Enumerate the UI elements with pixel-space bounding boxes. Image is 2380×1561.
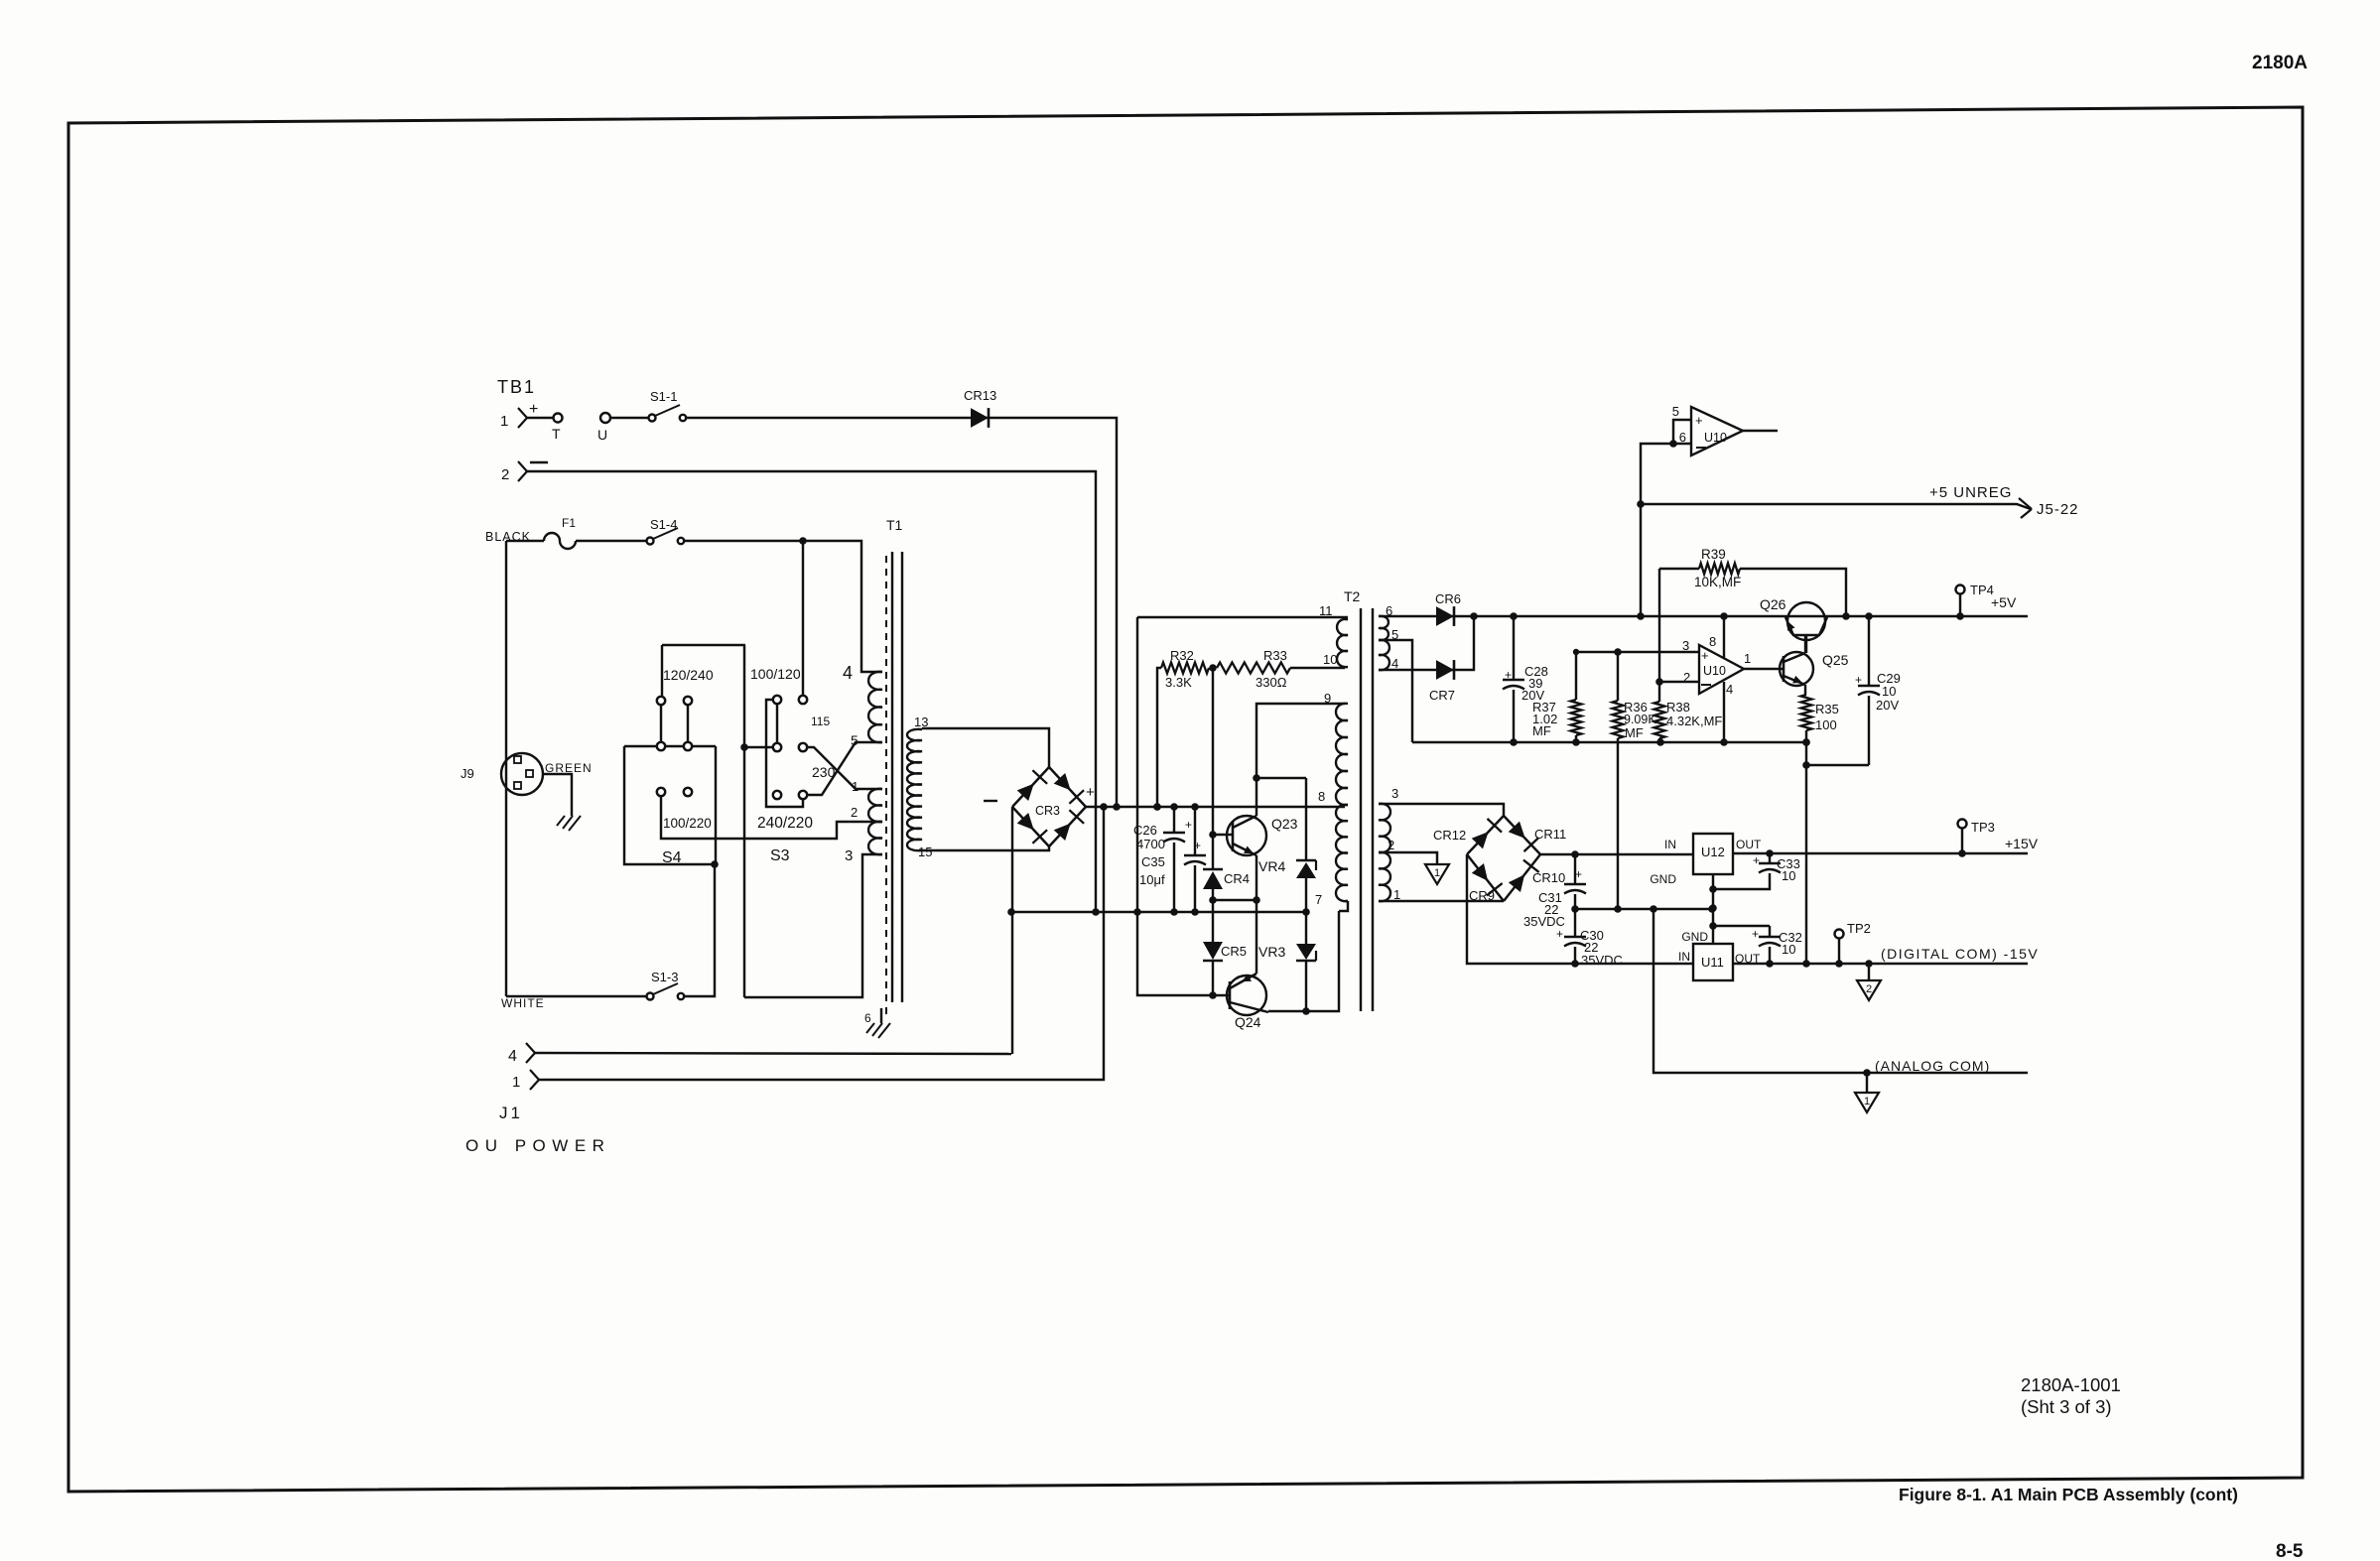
svg-text:MF: MF <box>1625 725 1644 740</box>
svg-text:8-5: 8-5 <box>2276 1541 2304 1561</box>
svg-text:120/240: 120/240 <box>663 667 714 683</box>
svg-text:GND: GND <box>1681 930 1708 944</box>
svg-text:Figure 8-1. A1 Main PCB Assemb: Figure 8-1. A1 Main PCB Assembly (cont) <box>1899 1485 2238 1504</box>
svg-text:1: 1 <box>1393 887 1400 902</box>
svg-text:2: 2 <box>1683 670 1690 685</box>
wire S1-3 to S4 box <box>684 864 715 996</box>
svg-text:1: 1 <box>1744 651 1751 666</box>
svg-text:4: 4 <box>1726 682 1733 697</box>
svg-text:S4: S4 <box>662 849 682 866</box>
svg-text:(ANALOG COM): (ANALOG COM) <box>1875 1058 1990 1074</box>
svg-text:Q23: Q23 <box>1271 816 1298 832</box>
wire R35 node down to -15V line <box>1805 765 1807 964</box>
ground symbol chassis (green) <box>569 816 581 831</box>
svg-text:OU POWER: OU POWER <box>465 1136 610 1155</box>
svg-text:J1: J1 <box>499 1104 523 1122</box>
svg-text:GND: GND <box>1650 872 1676 886</box>
svg-text:IN: IN <box>1678 950 1690 964</box>
transformer T2 core <box>1360 608 1362 1011</box>
wire +15V output line <box>1733 852 2028 854</box>
svg-text:CR3: CR3 <box>1035 804 1060 818</box>
svg-text:+: + <box>1701 648 1709 663</box>
switch S3 jumper left pair <box>776 704 778 743</box>
ground triangle 1 analog <box>1866 1073 1868 1093</box>
wire S1-1 to CR13 <box>686 417 971 419</box>
svg-text:R38: R38 <box>1666 700 1690 715</box>
svg-text:2: 2 <box>1866 983 1872 995</box>
svg-text:Q25: Q25 <box>1822 652 1849 668</box>
svg-text:U12: U12 <box>1701 845 1725 859</box>
regulator U12 <box>1693 834 1733 874</box>
wire -15V output line <box>1733 963 2028 965</box>
svg-text:WHITE: WHITE <box>501 996 545 1010</box>
wire S4 inner contact to T1 pin 2 <box>661 796 882 839</box>
svg-text:3: 3 <box>1391 786 1398 801</box>
wire BLACK to fuse <box>506 540 544 542</box>
wire +5 unreg line <box>1452 615 2028 617</box>
svg-text:5: 5 <box>1672 404 1679 419</box>
wire S1-4 junction down to S3 <box>802 541 804 696</box>
svg-text:Q26: Q26 <box>1760 596 1786 612</box>
svg-text:C35: C35 <box>1141 854 1165 869</box>
plus rail <box>1086 806 1345 808</box>
svg-text:10: 10 <box>1782 868 1795 883</box>
wire S3 to left-middle contact <box>744 746 773 748</box>
transformer T1 core <box>885 556 887 1014</box>
svg-text:S3: S3 <box>770 847 790 864</box>
wire C29 bottom jog <box>1806 764 1869 766</box>
op-amp U10 (upper spare) <box>1691 407 1743 455</box>
minus rail <box>1011 911 1306 913</box>
svg-text:100/220: 100/220 <box>663 816 712 831</box>
wire Q25 collector to Q26 base <box>1804 635 1806 653</box>
svg-text:CR11: CR11 <box>1534 827 1566 842</box>
svg-text:6: 6 <box>864 1011 871 1025</box>
svg-text:15: 15 <box>918 845 932 859</box>
wire U10 upper pin6 to unreg <box>1641 444 1691 616</box>
terminal T circle <box>527 417 553 419</box>
wire T1 pin11 riser to Q24 base <box>1137 617 1230 995</box>
wire T2 pin 7 step <box>1339 901 1348 911</box>
svg-text:8: 8 <box>1318 789 1325 804</box>
svg-text:1: 1 <box>1864 1096 1870 1107</box>
svg-text:4: 4 <box>508 1048 517 1065</box>
wire U10 pin4 to rail <box>1723 682 1725 742</box>
svg-text:U10: U10 <box>1703 664 1726 678</box>
svg-text:CR10: CR10 <box>1532 870 1565 885</box>
svg-text:330Ω: 330Ω <box>1256 675 1287 690</box>
svg-text:CR9: CR9 <box>1469 888 1495 903</box>
wire bridge minus to U11 input <box>1467 854 1693 964</box>
svg-text:3.3K: 3.3K <box>1165 675 1192 690</box>
wire T2-3 to bridge <box>1379 804 1504 816</box>
wire CR4-CR5 node link <box>1213 899 1256 901</box>
svg-text:2180A: 2180A <box>2252 53 2308 73</box>
svg-text:T2: T2 <box>1344 588 1361 604</box>
svg-text:R33: R33 <box>1263 648 1287 663</box>
svg-text:Q24: Q24 <box>1235 1014 1261 1030</box>
switch S4 body box <box>624 746 716 864</box>
wire U12 GND chain <box>1712 874 1714 944</box>
svg-text:3: 3 <box>1682 638 1689 653</box>
svg-text:R39: R39 <box>1701 547 1726 562</box>
svg-text:+15V: +15V <box>2005 836 2039 851</box>
svg-text:9.09K: 9.09K <box>1624 713 1656 726</box>
wire S3 loop to T1 pin 3 <box>744 854 882 997</box>
wire U10 pin8 to unreg <box>1723 616 1725 658</box>
svg-text:R35: R35 <box>1815 702 1839 716</box>
ground triangle 2 <box>1868 964 1870 980</box>
common rail under regulators <box>1412 741 1806 743</box>
svg-text:(DIGITAL COM) -15V: (DIGITAL COM) -15V <box>1881 946 2039 962</box>
wire TB1-2 to minus rail riser <box>527 471 1096 912</box>
wire R32-R33 junction vertical <box>1212 668 1214 868</box>
svg-text:10μf: 10μf <box>1139 872 1165 887</box>
svg-text:3: 3 <box>845 847 853 864</box>
svg-text:T1: T1 <box>886 517 903 533</box>
svg-text:CR7: CR7 <box>1429 688 1455 703</box>
wire Q23 emitter chain <box>1256 855 1257 974</box>
svg-text:IN: IN <box>1664 838 1676 851</box>
svg-text:7: 7 <box>1315 892 1322 907</box>
wire U10 pin3 line <box>1576 651 1699 653</box>
wire U10 upper output <box>1743 430 1778 432</box>
test point TP3 <box>1958 820 1967 829</box>
wire T2 pin 11 <box>1137 616 1348 618</box>
svg-text:R32: R32 <box>1170 648 1194 663</box>
svg-text:+5 UNREG: +5 UNREG <box>1929 484 2012 501</box>
switch S4 inner contacts 100/220 <box>657 788 665 796</box>
wire U10 upper pin5 <box>1673 420 1691 444</box>
wire analog common <box>1653 909 2028 1073</box>
svg-text:1: 1 <box>500 413 508 430</box>
wire CR3 minus output <box>1011 807 1013 1054</box>
svg-text:6: 6 <box>1679 430 1686 445</box>
svg-text:+: + <box>1556 927 1563 941</box>
wire pin9 node to VR4 <box>1256 777 1306 779</box>
svg-text:TP3: TP3 <box>1971 820 1995 835</box>
switch S4 contact pair B <box>684 697 692 705</box>
rail Q24 emitter to T2 pin 7 <box>1268 911 1339 1011</box>
svg-text:10: 10 <box>1782 942 1795 957</box>
wire T2 pin9 to Q23 collector <box>1256 704 1345 816</box>
svg-text:1: 1 <box>512 1074 520 1091</box>
wire BLACK vertical to WHITE row <box>505 541 507 996</box>
svg-text:OUT: OUT <box>1736 838 1762 851</box>
svg-text:U: U <box>597 427 607 443</box>
svg-text:+: + <box>1086 784 1095 801</box>
svg-text:VR4: VR4 <box>1258 858 1285 874</box>
switch S3 jumper U loop <box>766 700 803 807</box>
svg-text:CR12: CR12 <box>1433 828 1466 843</box>
svg-text:U11: U11 <box>1701 955 1724 970</box>
svg-text:100: 100 <box>1815 717 1837 732</box>
svg-text:+: + <box>1752 927 1759 941</box>
wire CR7 to unreg rail <box>1452 616 1474 670</box>
svg-text:+: + <box>1695 413 1703 428</box>
transistor Q24 emitter <box>1230 974 1256 988</box>
svg-text:115: 115 <box>811 715 830 728</box>
wire T1-13 to bridge CR3 <box>922 728 1049 767</box>
wire CR13 to +unreg rail riser <box>987 418 1117 807</box>
wire S3 feed vertical <box>743 645 745 997</box>
svg-text:S1-3: S1-3 <box>651 970 678 984</box>
wire U11 GND link <box>1713 925 1770 927</box>
svg-text:2: 2 <box>501 466 509 483</box>
wire T1-15 to bridge CR3 <box>922 846 1049 850</box>
svg-text:4700: 4700 <box>1136 837 1165 851</box>
wire mid node line <box>1575 908 1712 910</box>
svg-text:+: + <box>1753 853 1760 867</box>
wire T2-1 to bridge <box>1379 900 1504 902</box>
wire T2-2 center tap to ground <box>1379 852 1437 864</box>
svg-text:MF: MF <box>1532 723 1551 738</box>
wire WHITE to S1-3 <box>506 995 646 997</box>
svg-text:1: 1 <box>1434 867 1440 879</box>
wire J9 green to ground <box>543 774 572 816</box>
switch S4 contact pair A <box>657 697 665 705</box>
svg-text:13: 13 <box>914 715 928 729</box>
svg-text:10: 10 <box>1323 652 1337 667</box>
test point TP2 <box>1835 930 1844 939</box>
svg-text:CR13: CR13 <box>964 388 996 403</box>
ground triangle 1 at T2 <box>1425 864 1449 884</box>
svg-text:2180A-1001: 2180A-1001 <box>2021 1374 2121 1395</box>
svg-text:240/220: 240/220 <box>757 815 813 832</box>
svg-text:10: 10 <box>1882 684 1896 699</box>
svg-text:TP2: TP2 <box>1847 921 1871 936</box>
svg-text:5: 5 <box>851 732 859 748</box>
svg-text:CR4: CR4 <box>1224 871 1250 886</box>
regulator U11 <box>1693 944 1733 980</box>
svg-text:J9: J9 <box>461 766 474 781</box>
svg-text:9: 9 <box>1324 691 1331 706</box>
svg-text:1: 1 <box>852 779 859 794</box>
svg-text:CR5: CR5 <box>1221 944 1247 959</box>
svg-text:VR3: VR3 <box>1258 944 1285 960</box>
svg-text:F1: F1 <box>562 516 576 530</box>
svg-text:8: 8 <box>1709 634 1716 649</box>
svg-text:4: 4 <box>1391 656 1398 671</box>
wire S3 crossover to T1 pin 5 <box>807 742 882 795</box>
svg-text:TB1: TB1 <box>497 377 536 397</box>
svg-text:+5V: +5V <box>1991 594 2017 610</box>
test point TP4 <box>1956 585 1965 594</box>
svg-text:11: 11 <box>1319 603 1333 618</box>
svg-text:T: T <box>552 426 561 442</box>
svg-text:2: 2 <box>851 805 858 820</box>
wire bridge plus to U12 input <box>1540 853 1693 855</box>
wire U10 output to Q25 base <box>1744 668 1784 670</box>
svg-text:100/120: 100/120 <box>750 666 801 682</box>
wire U10 pin2 line <box>1659 681 1699 683</box>
svg-text:+: + <box>1185 818 1192 832</box>
svg-text:4: 4 <box>843 663 853 683</box>
wire F1 to S1-4 <box>576 540 646 542</box>
svg-text:+: + <box>529 401 538 418</box>
svg-text:U10: U10 <box>1704 431 1727 445</box>
svg-text:35VDC: 35VDC <box>1581 953 1623 968</box>
svg-text:CR6: CR6 <box>1435 591 1461 606</box>
wire T2 pin5 to common rail <box>1379 640 1412 742</box>
wire S1-4 to T1 pin 4 <box>684 541 882 672</box>
transistor Q24 collector <box>1230 1002 1268 1012</box>
svg-text:(Sht 3 of 3): (Sht 3 of 3) <box>2021 1396 2112 1417</box>
svg-text:20V: 20V <box>1876 698 1899 713</box>
svg-text:S1-1: S1-1 <box>650 389 677 404</box>
svg-text:4.32K,MF: 4.32K,MF <box>1666 714 1722 728</box>
op-amp U10 (regulator) <box>1699 645 1744 694</box>
wire R39 to pin2 node <box>1658 569 1660 682</box>
svg-text:J5-22: J5-22 <box>2037 501 2079 518</box>
